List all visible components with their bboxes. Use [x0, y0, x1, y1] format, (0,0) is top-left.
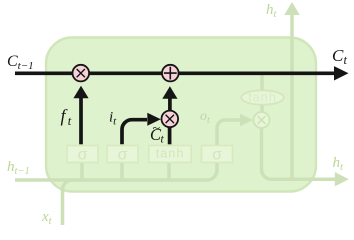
- arrow from multiply op 2 up into add op: [162, 86, 177, 110]
- arrowhead h(t) right: [335, 172, 349, 186]
- svg-text:ht−1: ht−1: [7, 159, 30, 177]
- gate box 4 sigma: [202, 146, 233, 164]
- wire x(t) input: [63, 180, 83, 225]
- svg-text:~: ~: [153, 122, 161, 137]
- svg-text:tanh: tanh: [156, 146, 185, 161]
- svg-text:σ: σ: [78, 147, 88, 164]
- gate box 3 tanh: [149, 146, 191, 163]
- wire tanh to multiply op 3: [260, 103, 264, 113]
- tanh oval: [241, 90, 284, 105]
- cell state line C: [15, 71, 335, 75]
- svg-text:Ct: Ct: [332, 46, 348, 67]
- arrowhead h(t) up: [284, 2, 300, 15]
- svg-text:σ: σ: [212, 147, 222, 164]
- arrowhead o(t) into multiply op 3: [240, 114, 253, 127]
- svg-text:tanh: tanh: [248, 90, 277, 105]
- arrowhead C(t) right: [334, 66, 349, 80]
- wire h(t) output down-and-right: [262, 127, 337, 179]
- candidate line from tanh box up to multiply op 2: [168, 127, 172, 144]
- forget gate arrow f(t): [73, 86, 88, 145]
- svg-text:Ct−1: Ct−1: [7, 53, 34, 72]
- wire C-line branch down to tanh: [260, 74, 264, 90]
- add op on C line: [162, 65, 179, 82]
- multiply op 2 (input x candidate): [162, 111, 179, 128]
- label C-tilde(t): [150, 122, 165, 146]
- cell body: [46, 38, 316, 192]
- svg-text:ht: ht: [266, 2, 278, 20]
- wire h(t) branch up: [290, 14, 294, 179]
- svg-text:xt: xt: [41, 209, 53, 227]
- svg-text:ht: ht: [333, 155, 345, 173]
- multiply op 3 (faded): [254, 112, 270, 128]
- gate box 2 sigma: [107, 146, 138, 164]
- input gate path i(t): [122, 113, 161, 145]
- multiply op 1 on C line: [73, 65, 90, 82]
- wire stub to gate box 3: [167, 162, 171, 180]
- wire stub to gate box 1: [80, 162, 84, 180]
- wire stub to gate box 2: [120, 162, 124, 180]
- svg-text:σ: σ: [118, 147, 128, 164]
- wire o(t) path: [217, 120, 240, 146]
- gate box 1 sigma: [67, 146, 98, 164]
- wire h(t-1) input line: [15, 162, 217, 180]
